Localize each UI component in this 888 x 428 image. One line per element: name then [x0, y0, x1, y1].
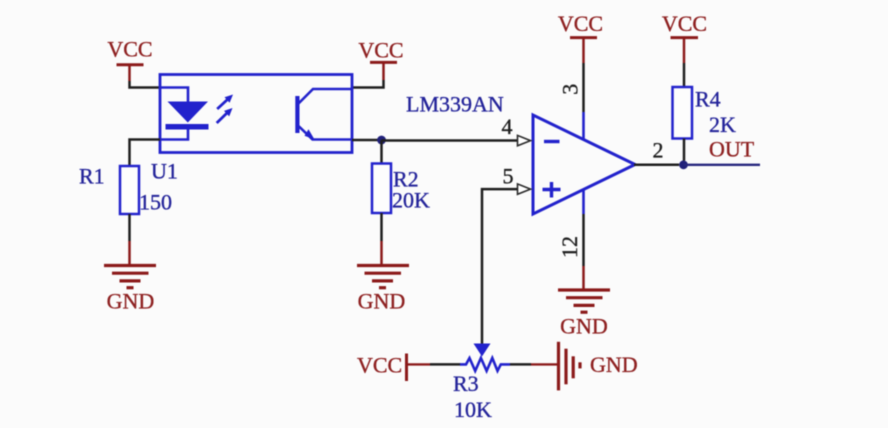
svg-text:3: 3	[558, 84, 583, 95]
svg-text:2: 2	[653, 138, 664, 163]
power symbol VCC (left of R3)	[357, 353, 407, 382]
node OUT junction	[679, 160, 688, 169]
svg-text:OUT: OUT	[709, 137, 755, 162]
U2 minus sign	[544, 140, 560, 143]
ground GND (below U2 pin 12)	[558, 266, 610, 339]
U1 phototransistor base bar	[295, 96, 299, 133]
wire node A to U2 pin 4	[382, 139, 518, 142]
svg-text:10K: 10K	[454, 397, 492, 422]
U2 pin 12 lead	[582, 190, 585, 215]
svg-text:4: 4	[502, 114, 513, 139]
wire U2 output to node OUT	[634, 164, 679, 167]
wire VCC bar to R3 (red)	[407, 363, 431, 365]
wire node A to R2	[380, 140, 383, 164]
svg-text:20K: 20K	[392, 188, 430, 213]
resistor R2	[372, 164, 391, 214]
U1 LED triangle	[168, 102, 209, 123]
svg-text:150: 150	[139, 190, 172, 215]
svg-text:2K: 2K	[709, 112, 736, 137]
svg-text:R3: R3	[453, 371, 479, 396]
wire node OUT to right (net OUT)	[684, 164, 761, 166]
power symbol VCC (above R4)	[662, 11, 707, 63]
resistor R4	[673, 87, 693, 139]
power symbol VCC (above U1 collector)	[358, 38, 403, 81]
wire U1 cathode to R1	[130, 140, 161, 167]
wire R4 to node OUT	[683, 139, 686, 161]
svg-text:12: 12	[557, 236, 582, 258]
wire U1 collector pin to VCC	[352, 80, 384, 88]
svg-text:U1: U1	[151, 159, 178, 184]
wire U2 pin 5 to R3 wiper	[482, 189, 518, 343]
wire R1 to ground	[128, 214, 131, 241]
potentiometer R3 zigzag	[460, 358, 510, 371]
U1 phototransistor emitter arrowhead	[305, 129, 315, 139]
svg-text:GND: GND	[560, 314, 608, 339]
U2 pin 5 input arrow	[518, 184, 531, 194]
svg-text:LM339AN: LM339AN	[406, 92, 504, 117]
op-amp U2 triangle	[533, 115, 635, 214]
U1 LED cathode bar	[166, 124, 209, 130]
U2 pin 4 input arrow	[518, 135, 531, 145]
power symbol VCC (above U2 pin 3)	[558, 11, 603, 63]
U1 LED anode lead	[160, 88, 188, 103]
svg-text:5: 5	[503, 164, 514, 189]
resistor R1	[120, 166, 139, 214]
wire U1 emitter to node A	[352, 139, 382, 142]
ground GND (right of R3, rotated)	[559, 342, 638, 391]
U2 plus sign	[543, 182, 561, 198]
ground GND (below R2)	[357, 241, 409, 314]
U2 pin 3 lead	[582, 112, 585, 141]
wire VCC to U2 pin 3	[582, 63, 585, 112]
power symbol VCC (top-left, above U1 anode)	[107, 37, 152, 82]
wire VCC to U1 anode pin	[130, 81, 162, 88]
svg-text:GND: GND	[358, 289, 406, 314]
R3 wiper arrow	[474, 344, 491, 357]
svg-text:VCC: VCC	[107, 37, 152, 62]
svg-text:VCC: VCC	[662, 11, 707, 36]
svg-text:R4: R4	[695, 87, 721, 112]
node A junction	[377, 136, 386, 145]
ground GND (below R1)	[104, 241, 156, 314]
wire to R3 left	[430, 363, 461, 366]
svg-text:GND: GND	[590, 352, 638, 377]
U1 LED emission arrow 1	[217, 95, 233, 110]
svg-text:VCC: VCC	[357, 353, 402, 378]
optocoupler U1 body	[160, 75, 352, 153]
U1 phototransistor emitter	[298, 126, 352, 140]
wire R2 to ground	[380, 213, 383, 241]
wire R3 right	[510, 363, 531, 366]
wire to ground (red)	[531, 363, 557, 365]
svg-text:GND: GND	[107, 289, 155, 314]
svg-text:VCC: VCC	[558, 11, 603, 36]
svg-text:R1: R1	[79, 164, 105, 189]
wire VCC to R4	[683, 63, 686, 87]
U1 LED emission arrow 2	[217, 108, 233, 123]
U1 phototransistor collector	[298, 89, 352, 104]
U1 LED cathode lead	[160, 130, 188, 140]
svg-text:VCC: VCC	[358, 38, 403, 63]
wire U2 pin 12 to ground	[582, 214, 585, 266]
